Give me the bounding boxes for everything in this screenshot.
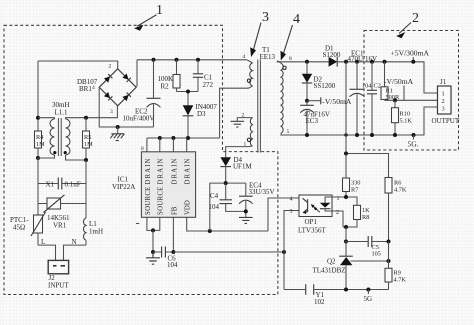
svg-text:4: 4 <box>293 12 300 27</box>
svg-text:4: 4 <box>243 54 246 60</box>
node: R2 top <box>175 58 179 62</box>
svg-text:1K: 1K <box>362 207 370 214</box>
node: TL431 bottom on rail <box>344 288 348 292</box>
wire: L line to J2 <box>38 245 56 260</box>
svg-text:UF1M: UF1M <box>233 163 252 171</box>
svg-text:BR1: BR1 <box>79 85 92 93</box>
connector J2 INPUT <box>48 260 69 289</box>
wire: AC top wire from left rail to bridge top <box>38 61 118 69</box>
svg-text:J1: J1 <box>440 78 447 86</box>
svg-text:104: 104 <box>167 261 178 269</box>
node: C1 top <box>196 58 200 62</box>
svg-text:SOURCE: SOURCE <box>158 186 165 215</box>
svg-text:45Ω: 45Ω <box>13 224 25 232</box>
wire: drain rail <box>147 137 220 139</box>
svg-text:SS1200: SS1200 <box>314 82 336 90</box>
svg-text:10uF/400V: 10uF/400V <box>123 115 155 123</box>
capacitor X1 0.1uF <box>38 178 86 190</box>
capacitor C1 272 <box>193 60 214 92</box>
wire: source down to gnd node <box>152 230 154 252</box>
resistor R4 <box>35 131 46 158</box>
common-mode choke L1.1 30mH <box>50 101 70 156</box>
wire: VDD rail corner up to opto pin4 <box>268 198 299 231</box>
svg-text:105: 105 <box>372 251 381 258</box>
wire: source pins join <box>147 217 160 230</box>
wire: primary bottom to drain rail <box>220 86 253 138</box>
svg-text:OUTPUT: OUTPUT <box>432 117 460 125</box>
svg-text:L1.1: L1.1 <box>55 109 69 117</box>
resistor R1 500R <box>381 60 400 101</box>
wire: secondary bottom rail (5G) <box>284 107 438 135</box>
capacitor EC4 33U/35V <box>239 182 275 218</box>
svg-text:272: 272 <box>203 81 214 89</box>
net label -V/50mA (secondary) <box>307 100 321 102</box>
resistor R9 4.7K <box>385 242 406 290</box>
svg-text:R7: R7 <box>351 187 358 194</box>
callout 3 <box>250 10 269 57</box>
node: VDD rail / D4 riser <box>208 229 212 233</box>
svg-text:104: 104 <box>209 203 220 211</box>
node: R7 top <box>344 152 348 156</box>
IC IC1 VIP22A <box>112 138 196 224</box>
capacitor C4 104 <box>209 183 246 211</box>
capacitor C2 104 <box>362 60 381 137</box>
dashed box 2 (output section) <box>364 31 459 151</box>
wire: opto pin3 row and riser <box>284 211 299 290</box>
node: R8/pin2 join <box>344 225 348 229</box>
svg-text:C4: C4 <box>210 192 219 200</box>
svg-text:VR1: VR1 <box>53 222 67 230</box>
node: source mid <box>151 228 155 232</box>
svg-text:R8: R8 <box>362 214 369 221</box>
node: EC2 top <box>152 58 156 62</box>
svg-text:-V/50mA: -V/50mA <box>322 97 352 106</box>
svg-text:+5V/300mA: +5V/300mA <box>391 49 430 58</box>
svg-text:3: 3 <box>262 10 269 25</box>
node: R4 bottom / choke left bottom <box>36 156 40 160</box>
bridge rectifier BR1 DB107 <box>77 64 136 116</box>
svg-text:1: 1 <box>156 3 163 18</box>
capacitor EC2 10uF/400V <box>123 60 161 127</box>
diode D4 UF1M <box>220 156 252 183</box>
inductor L1 1mH <box>84 218 103 245</box>
resistor R5 <box>83 118 94 160</box>
svg-text:4.7K: 4.7K <box>394 277 407 284</box>
aux winding <box>250 118 252 146</box>
ground: VDD cap ground <box>239 217 253 223</box>
node: C4/EC4 join <box>244 209 248 213</box>
wire: bridge right corner (DC+) up to DC rail <box>136 60 138 87</box>
svg-text:1M: 1M <box>36 141 45 148</box>
svg-text:EE13: EE13 <box>260 53 276 61</box>
node: EC3 bottom <box>305 133 309 137</box>
transformer T1 EE13 <box>220 46 292 157</box>
svg-text:5G.: 5G. <box>408 140 419 149</box>
node: left rail / choke top junction <box>36 116 40 120</box>
node: FB / pin3 riser / Y1 <box>282 250 286 254</box>
svg-text:4.7K: 4.7K <box>394 187 407 194</box>
svg-text:EC3: EC3 <box>306 117 319 125</box>
core <box>258 60 261 153</box>
thermistor PTC1 45ohm <box>10 212 46 245</box>
wire: left rail X1..PTC column <box>37 158 39 215</box>
callout 2 <box>396 11 419 38</box>
net label +5V/300mA <box>391 49 430 64</box>
node: D3 on clamp wire <box>186 90 190 94</box>
callout 4 <box>281 12 301 61</box>
svg-text:2: 2 <box>109 64 112 70</box>
wire: opto pin2 row <box>332 211 343 227</box>
primary winding <box>250 63 253 86</box>
svg-text:FB: FB <box>171 206 178 215</box>
capacitor EC1 470U/16V <box>348 49 378 137</box>
node: C5/R6/R9 join <box>387 240 391 244</box>
node: FB/C6 <box>171 250 175 254</box>
ground: chassis earth under bridge <box>110 127 124 141</box>
svg-text:S1200: S1200 <box>323 51 341 59</box>
svg-text:2: 2 <box>442 98 445 105</box>
svg-text:3: 3 <box>442 106 445 113</box>
svg-text:SOURCE: SOURCE <box>145 186 152 215</box>
svg-text:N: N <box>72 238 77 246</box>
diode D1 S1200 <box>323 45 341 67</box>
connector J1 OUTPUT <box>432 78 460 125</box>
wire: left rail down <box>37 61 39 131</box>
node: D4 / C4 / EC4 <box>224 181 228 185</box>
node: D2 top <box>305 60 309 64</box>
svg-text:104: 104 <box>362 83 372 90</box>
svg-text:INPUT: INPUT <box>48 282 69 290</box>
svg-text:0.1uF: 0.1uF <box>65 180 81 188</box>
wire: bridge left corner (DC-) down to primary gnd rail <box>99 87 153 127</box>
ground: primary gnd at IC source <box>146 252 160 264</box>
resistor R6 4.7K <box>385 178 407 242</box>
svg-text:8: 8 <box>141 146 144 152</box>
wire: VDD riser up to D4 node row <box>210 183 246 231</box>
callout 1 <box>134 3 163 31</box>
svg-text:33U/35V: 33U/35V <box>249 188 275 196</box>
diode D3 IN4007 <box>183 92 218 139</box>
svg-text:5G: 5G <box>364 295 373 303</box>
svg-text:VIP22A: VIP22A <box>112 183 135 191</box>
svg-text:4: 4 <box>92 85 95 91</box>
svg-text:5.1K: 5.1K <box>400 118 413 125</box>
net label 5G (feedback) <box>364 288 373 304</box>
capacitor C5 105 <box>346 236 389 258</box>
wire: VDD pin riser and VDD rail <box>187 217 268 231</box>
net label -V/50mA (output) <box>384 77 414 100</box>
capacitor C6 104 <box>153 247 178 270</box>
node: R5 top <box>84 116 88 120</box>
resistor R7 330 <box>343 154 361 198</box>
wire: opto pin1 row <box>332 197 357 205</box>
diode D2 SS1200 <box>302 62 336 101</box>
svg-text:R10: R10 <box>400 111 411 118</box>
svg-text:LTV356T: LTV356T <box>298 227 326 235</box>
svg-text:D3: D3 <box>197 110 206 118</box>
dashed box 1 (input/primary section) <box>4 25 278 294</box>
svg-text:TL431DBZ: TL431DBZ <box>313 267 346 275</box>
svg-text:4: 4 <box>290 197 293 203</box>
svg-text:DRAIN: DRAIN <box>158 157 165 184</box>
svg-text:X1: X1 <box>46 180 55 188</box>
node: gnd/C6 left <box>151 250 155 254</box>
node: -V net at EC3 <box>305 99 309 103</box>
net label 5G (output) <box>408 133 419 149</box>
svg-text:R9: R9 <box>394 270 401 277</box>
svg-text:R5: R5 <box>84 134 91 141</box>
wire: N line to J2 <box>64 245 87 260</box>
svg-text:-V/50mA: -V/50mA <box>384 77 414 86</box>
svg-text:R4: R4 <box>36 134 44 141</box>
wire: clamp node R2-C1 <box>177 91 199 93</box>
svg-text:R2: R2 <box>161 83 170 91</box>
svg-text:OP1: OP1 <box>305 218 318 226</box>
node: C5 row left <box>344 240 348 244</box>
resistor R2 100K <box>158 60 181 92</box>
svg-text:8: 8 <box>289 56 292 62</box>
wire: FB row to opto emitter riser <box>173 251 284 253</box>
svg-text:102: 102 <box>314 298 325 306</box>
node: R5 bottom rail <box>84 158 88 162</box>
node: drain rail junctions <box>158 136 162 140</box>
svg-text:330: 330 <box>351 180 360 187</box>
wire: right rail column <box>85 160 87 218</box>
svg-text:DRAIN: DRAIN <box>185 157 192 184</box>
wire: choke right bottom <box>66 155 87 160</box>
resistor R10 5.1K <box>392 100 413 137</box>
varistor VR1 14K561 <box>38 195 86 230</box>
svg-text:5: 5 <box>287 129 290 135</box>
capacitor EC3 47uF16V <box>300 101 330 135</box>
node: R10 top <box>393 98 397 102</box>
svg-text:2: 2 <box>412 11 419 26</box>
svg-text:C2: C2 <box>374 83 381 90</box>
optocoupler OP1 LTV356T <box>290 195 340 235</box>
svg-text:DRAIN: DRAIN <box>145 157 152 184</box>
svg-text:1: 1 <box>442 91 445 98</box>
svg-text:VDD: VDD <box>185 200 192 215</box>
shunt regulator Q2 TL431DBZ <box>313 242 391 290</box>
wire: -V row to J1 pin 2 <box>385 99 438 101</box>
wire: +5V sense line down to divider <box>344 60 348 64</box>
node: primary gnd under bridge <box>116 125 120 129</box>
svg-text:1mH: 1mH <box>89 228 103 236</box>
svg-text:3: 3 <box>110 109 113 115</box>
wire: DC+ top rail to transformer pin 4 <box>137 59 247 61</box>
svg-text:1M: 1M <box>84 141 93 148</box>
resistor R8 1K <box>343 205 370 227</box>
secondary winding <box>281 63 283 133</box>
svg-text:R6: R6 <box>394 180 401 187</box>
svg-text:Q2: Q2 <box>327 258 336 266</box>
wire: choke right top to bridge bottom AC <box>66 106 118 119</box>
svg-text:L: L <box>41 238 45 246</box>
capacitor Y1 102 (Y-cap) <box>284 284 389 306</box>
wire: secondary +5V top rail <box>277 61 437 93</box>
wire: FB pin down <box>172 217 174 252</box>
svg-text:3: 3 <box>290 209 293 215</box>
svg-text:DRAIN: DRAIN <box>171 157 178 184</box>
